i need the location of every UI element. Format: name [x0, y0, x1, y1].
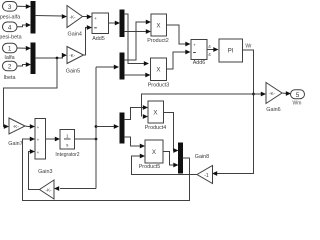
arrow into Gain3: [54, 186, 59, 191]
product Product2: [151, 14, 167, 36]
wire Wr branch to Gain6 and Product4: [142, 92, 267, 117]
svg-text:-1: -1: [204, 173, 209, 179]
wire inport1 to Mux2: [17, 46, 31, 51]
outport 5 Wm: [291, 90, 305, 99]
svg-text:Wm: Wm: [293, 100, 302, 106]
wire Product4 to Mux3: [164, 113, 179, 153]
label Gain6: [266, 107, 280, 113]
wire Gain3 to Add2 in3: [29, 149, 40, 189]
svg-text:X: X: [156, 23, 160, 30]
svg-text:Integrator2: Integrator2: [55, 152, 79, 158]
label Gain4: [68, 32, 82, 38]
wire Product3 to Add6 minus: [167, 50, 191, 69]
wire Demux3 out1 to Product4: [124, 105, 148, 119]
gain Gain8: [197, 166, 213, 184]
arrow into Product4 in2: [143, 114, 148, 119]
wire Gain8 to Product5 in2: [132, 154, 198, 175]
mux Mux2: [31, 43, 35, 74]
wire Demux1 out2 to Product2: [124, 29, 151, 34]
gain Gain7: [9, 118, 25, 134]
demux Demux1: [120, 10, 124, 37]
wire Demux1 out1 to Product3: [124, 14, 149, 66]
integrator Integrator2: [60, 130, 75, 150]
svg-text:1: 1: [8, 46, 12, 53]
label Add6: [193, 60, 206, 66]
label Add5: [92, 36, 105, 42]
product Product5: [145, 140, 163, 163]
wire Mux1 to Gain4: [35, 14, 67, 19]
inport 1 Ialfa: [3, 43, 18, 53]
svg-text:4: 4: [208, 44, 211, 50]
svg-text:X: X: [156, 67, 160, 74]
svg-text:Add6: Add6: [193, 60, 206, 66]
svg-text:3: 3: [8, 4, 12, 11]
controller PI: [219, 39, 243, 62]
wire Demux2 out1 to Product2: [124, 20, 151, 60]
product Product4: [148, 101, 164, 123]
label Gain7: [8, 141, 22, 147]
inport 4 pesi-beta: [3, 22, 18, 32]
svg-text:Wr: Wr: [245, 44, 252, 50]
gain Gain3: [40, 180, 55, 199]
label Product4: [145, 125, 167, 131]
svg-text:5: 5: [296, 92, 300, 99]
svg-text:+: +: [193, 43, 196, 48]
wire Product2 to Add6 plus: [167, 25, 191, 46]
svg-text:Add5: Add5: [92, 36, 105, 42]
label Integrator2: [55, 152, 79, 158]
svg-text:Product2: Product2: [147, 38, 169, 44]
svg-text:Gain7: Gain7: [8, 141, 22, 147]
svg-text:+: +: [37, 125, 40, 130]
svg-text:PI: PI: [228, 48, 234, 55]
svg-text:Product5: Product5: [139, 164, 161, 170]
svg-text:-K-: -K-: [69, 53, 76, 58]
junction integrator output: [95, 138, 98, 141]
svg-text:Gain8: Gain8: [195, 154, 209, 160]
sum Add5: [92, 13, 109, 34]
svg-text:Gain6: Gain6: [266, 107, 280, 113]
svg-text:Ialfa: Ialfa: [4, 55, 14, 61]
wire Gain7 to Add in1: [25, 124, 35, 129]
label Gain3: [38, 169, 52, 175]
svg-text:X: X: [153, 110, 157, 117]
label Product2: [147, 38, 169, 44]
wire Gain6 to outport: [282, 91, 291, 96]
wire inport2 to Mux2: [17, 62, 31, 67]
svg-text:+: +: [37, 138, 40, 143]
svg-text:pesi-alfa: pesi-alfa: [0, 15, 20, 21]
wire branch to Demux3: [96, 124, 119, 129]
label Gain8: [195, 154, 209, 160]
svg-text:Gain3: Gain3: [38, 169, 52, 175]
wire PI to Gain8 via right column: [212, 50, 254, 176]
svg-text:+: +: [94, 16, 97, 21]
label Wm: [293, 100, 302, 106]
demux Demux3: [120, 113, 124, 143]
demux Demux2: [120, 53, 124, 79]
svg-text:Ibeta: Ibeta: [4, 75, 16, 81]
wire Demux3 out2 to Product5: [124, 137, 145, 148]
wire Demux2 out2 to Product3: [124, 73, 151, 78]
wire Gain5 to Add5 minus input: [84, 25, 93, 55]
svg-text:pesi-beta: pesi-beta: [0, 35, 22, 41]
sum Add6: [191, 40, 207, 60]
wire feedback to Gain3: [60, 188, 96, 190]
gain Gain6: [266, 83, 282, 104]
svg-text:X: X: [152, 149, 156, 156]
junction current-vector branch: [56, 57, 59, 60]
sum Add2 three inputs: [35, 119, 46, 160]
wire Add6 to PI: [207, 47, 219, 52]
svg-text:-K-: -K-: [269, 91, 276, 96]
svg-text:4: 4: [8, 24, 12, 31]
svg-text:2: 2: [8, 64, 12, 71]
svg-text:-K-: -K-: [13, 124, 20, 129]
svg-text:Gain4: Gain4: [68, 32, 82, 38]
wire Add2 to Integrator2: [46, 137, 61, 142]
gain Gain5: [67, 47, 84, 64]
svg-text:Gain5: Gain5: [66, 69, 80, 75]
gain Gain4: [67, 6, 83, 28]
signal width label 4 lower: [208, 52, 211, 58]
svg-text:Product3: Product3: [148, 83, 170, 89]
svg-text:-K-: -K-: [45, 188, 52, 193]
wire Product5 to Mux3: [163, 152, 179, 168]
wire inport4 to Mux: [17, 23, 31, 28]
mux Mux1: [31, 2, 35, 34]
junction demux3 branch: [95, 125, 98, 128]
label Product3: [148, 83, 170, 89]
label Product5: [139, 164, 161, 170]
wire Gain4 to Add5: [83, 14, 93, 19]
svg-text:Product4: Product4: [145, 125, 167, 131]
wire Mux2 to Gain5: [35, 53, 67, 58]
signal width label 4 upper: [208, 44, 211, 50]
label Wr: [245, 44, 252, 50]
inport 2 Ibeta: [3, 61, 18, 71]
wire Mux3 feedback loop to Add2 in2: [23, 137, 190, 201]
svg-text:-K-: -K-: [69, 14, 76, 19]
wire branch to Gain7: [4, 58, 58, 129]
inport 3 pesi-alfa: [3, 2, 18, 12]
wire Add5 to Demux1: [109, 21, 121, 26]
label Gain5: [66, 69, 80, 75]
wire feedback column vertical: [95, 67, 97, 189]
junction Wr branch: [252, 93, 255, 96]
mux Mux3: [179, 143, 183, 173]
wire Integrator2 to feedback column: [75, 138, 97, 140]
product Product3: [151, 58, 167, 81]
svg-text:+: +: [37, 150, 40, 155]
svg-text:4: 4: [208, 52, 211, 58]
wire integrator branch to Demux2: [96, 65, 119, 70]
svg-text:1: 1: [66, 134, 69, 139]
wire inport3 to Mux: [17, 4, 31, 9]
